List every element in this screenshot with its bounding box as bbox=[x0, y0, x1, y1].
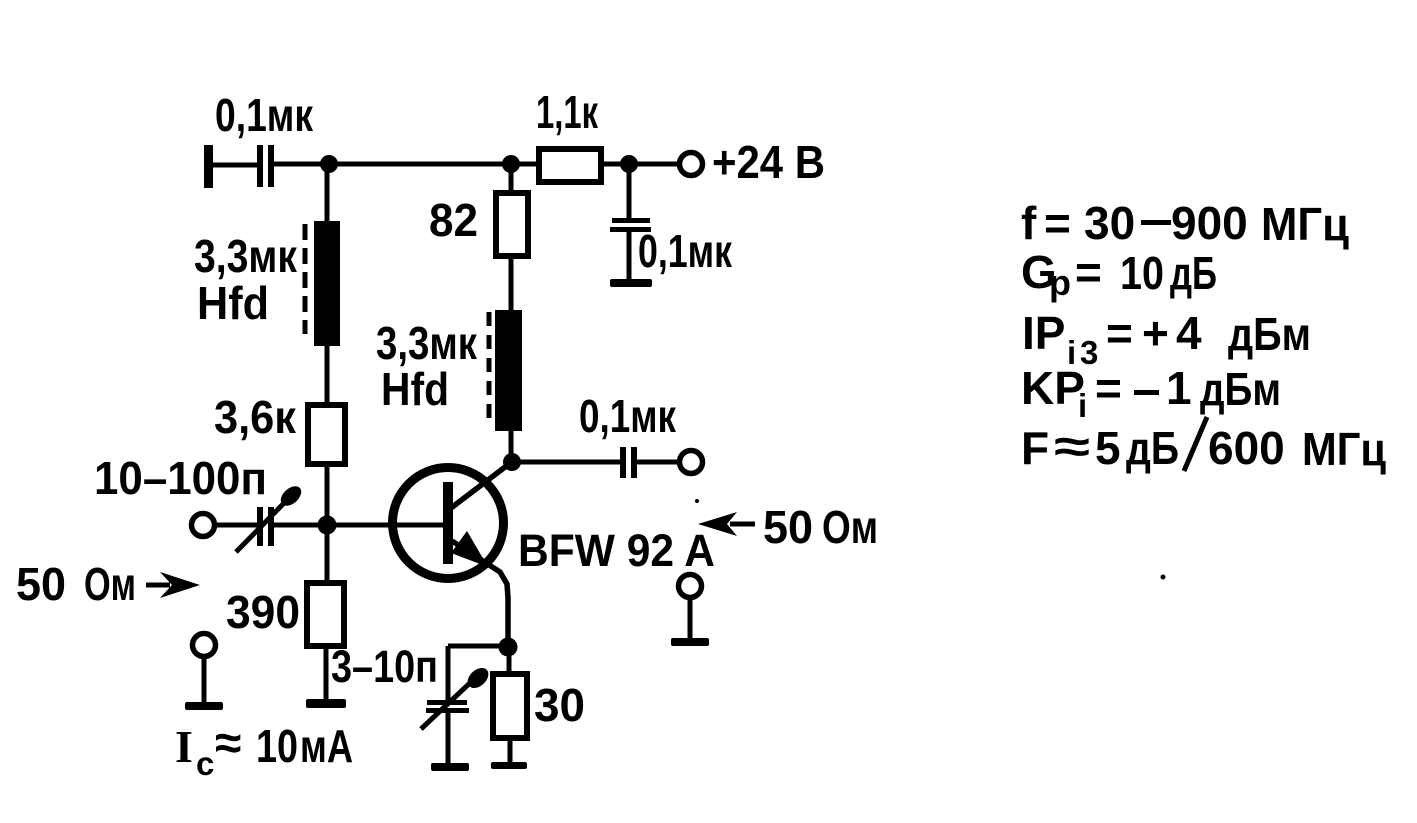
svg-text:+: + bbox=[1142, 307, 1169, 359]
slash in line 5 bbox=[1184, 417, 1207, 471]
node J2 bbox=[502, 155, 520, 173]
svg-text:900: 900 bbox=[1171, 197, 1248, 249]
svg-text:дБм: дБм bbox=[1228, 308, 1311, 360]
svg-text:1,1к: 1,1к bbox=[536, 86, 599, 138]
svg-text:5: 5 bbox=[1095, 422, 1121, 474]
resistor R3 82 bbox=[496, 193, 528, 256]
ground under C3 bbox=[610, 279, 652, 287]
wire R2 to ground bbox=[324, 646, 329, 699]
svg-text:10: 10 bbox=[1120, 247, 1164, 299]
C2 arrow bbox=[236, 499, 288, 552]
svg-text:1: 1 bbox=[1166, 362, 1192, 414]
ground under R5 bbox=[491, 762, 527, 769]
output wire bbox=[513, 460, 620, 465]
svg-text:дБ: дБ bbox=[1170, 247, 1217, 299]
svg-text:p: p bbox=[1049, 262, 1071, 303]
wire R1 to base node to R2 bbox=[325, 464, 330, 583]
capacitor C1 0,1mk plates bbox=[257, 145, 263, 187]
svg-text:3–10п: 3–10п bbox=[331, 641, 438, 692]
resistor R5 30 bbox=[493, 674, 527, 738]
input stub bar bbox=[204, 145, 213, 188]
node J5 emitter bbox=[499, 638, 518, 657]
wire C1 to R4 bbox=[274, 162, 539, 167]
svg-text:Ом: Ом bbox=[84, 558, 136, 610]
C5 arrow bbox=[421, 682, 471, 729]
inductor L1 3,3mk Hfd bbox=[314, 221, 340, 346]
ground under R2 bbox=[306, 699, 346, 708]
ground under C5 bbox=[431, 763, 469, 771]
arrow 50 Om output bbox=[698, 512, 737, 536]
svg-text:10–100п: 10–100п bbox=[94, 452, 267, 504]
transistor Q1 BFW 92 A bbox=[393, 468, 504, 579]
resistor R2 390 bbox=[307, 583, 344, 646]
svg-text:мА: мА bbox=[300, 720, 353, 772]
terminal +24V bbox=[680, 153, 703, 176]
inductor L2 3,3mk Hfd bbox=[495, 310, 522, 431]
svg-text:=: = bbox=[1106, 307, 1133, 359]
L2 ferrite dashed line bbox=[487, 312, 492, 423]
base bar bbox=[443, 482, 453, 564]
dash line1 bbox=[1141, 220, 1171, 225]
wire C3 to ground bbox=[627, 232, 632, 279]
node J1 bbox=[320, 155, 338, 173]
wire terminal to ground right bbox=[688, 598, 693, 638]
svg-text:Hfd: Hfd bbox=[197, 277, 269, 329]
wire C2 to base bbox=[274, 523, 447, 528]
svg-text:F: F bbox=[1021, 422, 1049, 474]
svg-text:82: 82 bbox=[429, 194, 478, 246]
resistor R1 3,6k bbox=[308, 405, 345, 464]
wire terminal to ground left bbox=[202, 657, 207, 702]
svg-text:0,1мк: 0,1мк bbox=[638, 225, 733, 277]
svg-text:10: 10 bbox=[256, 720, 298, 772]
wire stub to C1 bbox=[213, 163, 257, 168]
node J3 bbox=[620, 155, 638, 173]
input terminal bbox=[192, 514, 215, 537]
svg-text:0,1мк: 0,1мк bbox=[579, 390, 677, 442]
arrow 50 Om input bbox=[146, 583, 170, 588]
wire L2 to collector node bbox=[509, 431, 514, 462]
svg-text:3,6к: 3,6к bbox=[214, 391, 297, 443]
svg-text:МГц: МГц bbox=[1261, 198, 1349, 250]
svg-text:50: 50 bbox=[16, 558, 66, 610]
input side terminal to ground bbox=[193, 634, 216, 657]
ground under output terminal bbox=[671, 638, 709, 646]
collector line bbox=[451, 461, 513, 508]
node J6 collector bbox=[503, 453, 521, 471]
dash line4 bbox=[1134, 390, 1159, 395]
emitter arrow bbox=[451, 531, 488, 567]
svg-text:I: I bbox=[175, 721, 193, 772]
specs text line 5: F = 5dB/600 MHz bbox=[1021, 420, 1386, 475]
speck dot 2 bbox=[695, 499, 699, 503]
capacitor C4 0,1mk plates bbox=[620, 447, 626, 478]
svg-text:Hfd: Hfd bbox=[381, 363, 449, 415]
svg-text:600: 600 bbox=[1208, 422, 1285, 474]
svg-text:30: 30 bbox=[534, 679, 585, 731]
wire R3 to L2 bbox=[509, 256, 514, 310]
svg-text:=: = bbox=[1075, 246, 1102, 298]
svg-text:50: 50 bbox=[763, 501, 813, 553]
svg-text:=: = bbox=[1095, 362, 1122, 414]
node J4 base bbox=[318, 516, 337, 535]
wire emitter node left bbox=[448, 644, 508, 649]
wire J3 down to C3 bbox=[627, 164, 632, 218]
svg-text:=: = bbox=[1044, 197, 1071, 249]
wire R5 to ground bbox=[508, 738, 513, 762]
svg-text:f: f bbox=[1021, 197, 1037, 249]
specs text line 4: KPi = -1 dBm bbox=[1021, 362, 1281, 424]
svg-text:≈: ≈ bbox=[215, 717, 241, 770]
svg-text:KP: KP bbox=[1021, 362, 1085, 414]
svg-text:3,3мк: 3,3мк bbox=[194, 230, 298, 282]
wire down to C5 bbox=[446, 646, 451, 700]
L1 ferrite dashed line bbox=[303, 224, 308, 334]
wire L1 to R1 bbox=[325, 346, 330, 405]
output terminal bbox=[680, 451, 703, 474]
svg-text:390: 390 bbox=[226, 586, 300, 638]
svg-text:IP: IP bbox=[1022, 307, 1065, 359]
variable capacitor C2 10-100p plates bbox=[257, 507, 263, 546]
svg-text:i: i bbox=[1078, 387, 1087, 424]
emitter line bbox=[452, 541, 508, 640]
wire R4 to +24V terminal bbox=[601, 162, 679, 167]
svg-text:0,1мк: 0,1мк bbox=[215, 89, 314, 141]
specs text line 2: Gp = 10 dB bbox=[1021, 246, 1217, 303]
svg-text:дБ: дБ bbox=[1126, 422, 1179, 474]
wire C5 to ground bbox=[446, 713, 451, 763]
svg-text:Ом: Ом bbox=[822, 501, 878, 553]
wire J5 to R5 bbox=[507, 656, 512, 674]
speck dot bbox=[1161, 575, 1166, 580]
capacitor C3 0,1mk plates bbox=[612, 218, 650, 223]
output side terminal to ground bbox=[679, 575, 702, 598]
wire C4 to output terminal bbox=[637, 460, 679, 465]
svg-text:МГц: МГц bbox=[1302, 423, 1386, 475]
ground under input terminal bbox=[185, 702, 223, 710]
trimmer C5 3-10p plates bbox=[427, 700, 467, 705]
resistor R4 1,1k bbox=[539, 149, 601, 182]
svg-text:30: 30 bbox=[1084, 197, 1135, 249]
wire J1 down to L1 bbox=[325, 164, 330, 221]
wire input to C2 bbox=[215, 523, 257, 528]
svg-text:4: 4 bbox=[1176, 307, 1202, 359]
wire J2 down to R3 bbox=[509, 164, 514, 193]
svg-text:3,3мк: 3,3мк bbox=[376, 317, 478, 369]
specs text line 3: IPi3 = +4 dBm bbox=[1022, 307, 1311, 371]
svg-text:дБм: дБм bbox=[1200, 363, 1281, 415]
svg-text:+24 В: +24 В bbox=[712, 136, 825, 188]
svg-text:c: c bbox=[196, 745, 214, 782]
svg-text:BFW 92 A: BFW 92 A bbox=[518, 525, 715, 576]
svg-text:≈: ≈ bbox=[1054, 420, 1090, 472]
specs text line 1: f = 30-900 MHz bbox=[1021, 197, 1349, 250]
